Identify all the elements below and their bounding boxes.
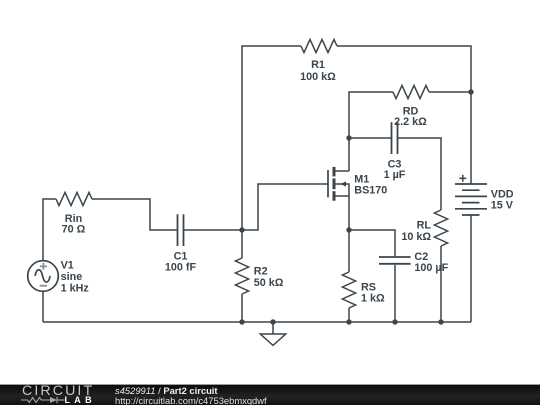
svg-text:15 V: 15 V bbox=[491, 200, 514, 212]
svg-text:10 kΩ: 10 kΩ bbox=[401, 231, 431, 243]
svg-text:50 kΩ: 50 kΩ bbox=[254, 277, 284, 289]
svg-text:100 fF: 100 fF bbox=[165, 262, 197, 274]
svg-text:70 Ω: 70 Ω bbox=[62, 224, 86, 236]
svg-text:100 kΩ: 100 kΩ bbox=[300, 71, 336, 83]
svg-text:100 µF: 100 µF bbox=[414, 262, 448, 274]
svg-text:R2: R2 bbox=[254, 266, 268, 278]
svg-text:V1: V1 bbox=[61, 260, 74, 272]
svg-text:sine: sine bbox=[61, 271, 83, 283]
svg-text:1 kHz: 1 kHz bbox=[61, 283, 90, 295]
svg-text:2.2 kΩ: 2.2 kΩ bbox=[394, 116, 427, 128]
svg-text:R1: R1 bbox=[311, 59, 325, 71]
svg-text:BS170: BS170 bbox=[354, 185, 387, 197]
svg-text:RL: RL bbox=[417, 219, 432, 231]
svg-text:1 kΩ: 1 kΩ bbox=[361, 292, 385, 304]
svg-text:1 µF: 1 µF bbox=[384, 169, 406, 181]
